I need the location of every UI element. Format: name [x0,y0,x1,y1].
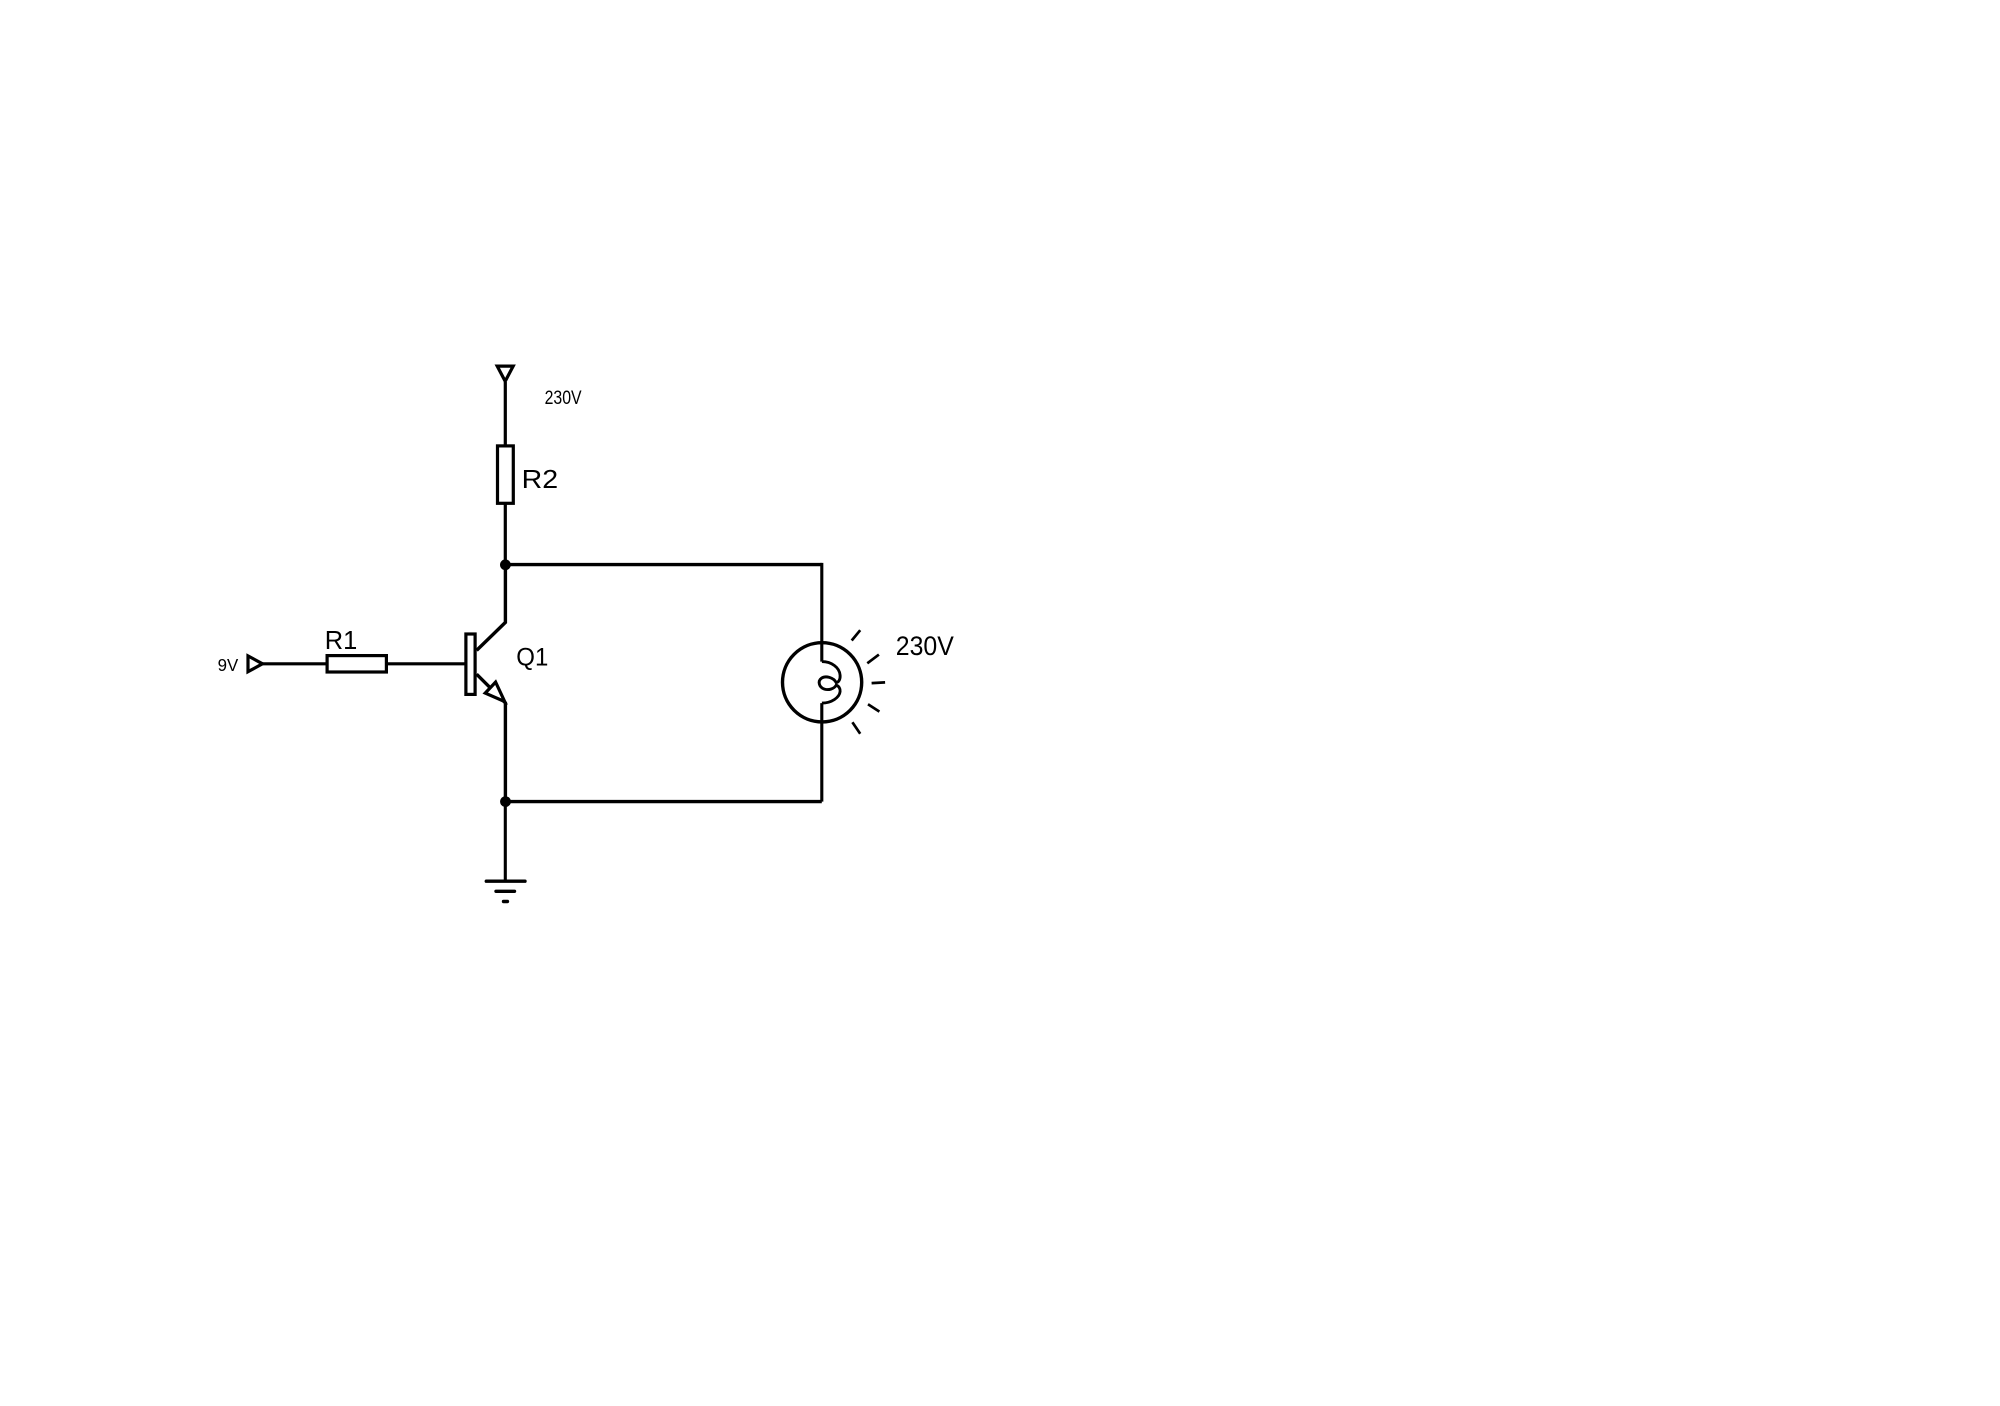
wire: 230V rail to R2 [504,382,507,447]
input connector 9V [248,656,263,672]
resistor R2 [498,446,514,503]
svg-text:R1: R1 [325,625,358,655]
wire: lamp top lead [820,563,823,662]
wire: R2 to collector node [504,504,507,567]
transistor Q1 base bar [466,634,475,694]
transistor Q1 emitter lead [477,674,506,801]
svg-text:230V: 230V [896,631,954,661]
transistor Q1 emitter arrow [485,682,505,702]
svg-text:230V: 230V [545,388,582,409]
junction node (emitter) [500,796,511,807]
wire: R1 to base [387,662,465,665]
svg-text:9V: 9V [218,655,239,675]
wire: bottom horizontal (emitter to lamp) [505,800,822,803]
ground symbol [486,881,525,901]
lamp circle [783,643,862,722]
power rail symbol 230V [497,366,513,381]
lamp filament [819,662,840,704]
wire: top horizontal (collector to lamp) [505,563,822,566]
transistor Q1 collector lead [477,565,506,651]
lamp rays [852,630,885,734]
resistor R1 [327,656,386,672]
svg-text:R2: R2 [522,464,559,494]
wire: lamp bottom lead [820,703,823,802]
svg-text:Q1: Q1 [516,643,548,671]
wire: 9V connector to R1 [262,662,328,665]
wire: emitter node to ground [504,802,507,882]
junction node (collector) [500,559,511,570]
